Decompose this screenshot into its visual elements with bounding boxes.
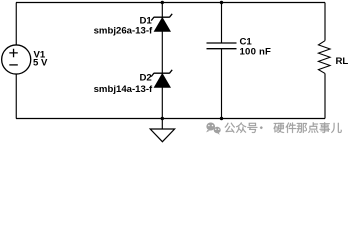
junction dot top capacitor branch — [220, 1, 223, 4]
junction dot bottom diode branch — [161, 117, 164, 120]
resistor RL zigzag — [318, 41, 330, 74]
watermark text 公众号·硬件那点事儿 — [225, 122, 342, 133]
watermark wechat icon — [206, 123, 221, 135]
svg-text:smbj14a-13-f: smbj14a-13-f — [94, 84, 153, 95]
wire right vertical upper — [324, 3, 326, 41]
wire left vertical upper — [15, 3, 17, 46]
svg-text:5 V: 5 V — [33, 57, 48, 68]
diode D2 (zener) — [151, 70, 172, 88]
svg-text:D2: D2 — [140, 73, 152, 84]
junction dot bottom capacitor branch — [220, 117, 223, 120]
junction dot top diode branch — [161, 1, 164, 4]
wire top rail — [16, 2, 325, 4]
svg-text:smbj26a-13-f: smbj26a-13-f — [94, 26, 153, 37]
svg-text:100 nF: 100 nF — [240, 47, 272, 58]
wire capacitor branch upper — [221, 3, 223, 43]
wire left vertical lower — [15, 74, 17, 119]
voltage source V1 — [2, 45, 31, 74]
wire right vertical lower — [324, 73, 326, 118]
svg-text:RL: RL — [336, 56, 349, 67]
wire bottom rail — [16, 118, 325, 120]
capacitor C1 plates — [207, 43, 237, 49]
diode D1 (zener) — [151, 14, 172, 32]
wire capacitor branch lower — [221, 49, 223, 119]
svg-text:C1: C1 — [240, 36, 253, 47]
wire diode branch — [161, 3, 163, 119]
ground — [150, 119, 174, 142]
